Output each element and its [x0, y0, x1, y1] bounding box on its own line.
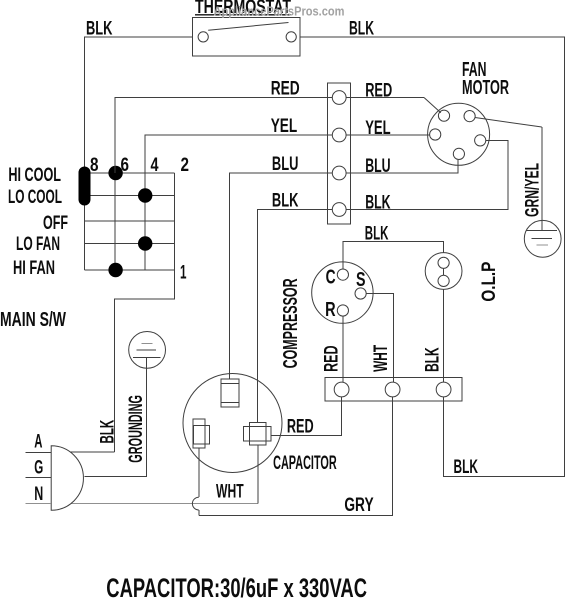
- grounding symbol left: [129, 332, 166, 369]
- fan motor M: [428, 103, 490, 165]
- overload protector O.L.P: [425, 253, 462, 290]
- svg-text:G: G: [34, 458, 43, 479]
- wire BLK thermostat right / right border loop: [300, 37, 565, 477]
- power plug: [51, 446, 83, 511]
- svg-text:BLK: BLK: [97, 420, 118, 444]
- svg-text:RED: RED: [271, 79, 300, 100]
- wire capacitor left terminal with hop: [198, 448, 200, 497]
- svg-text:GROUNDING: GROUNDING: [126, 395, 147, 463]
- svg-text:RED: RED: [322, 345, 343, 372]
- svg-text:4: 4: [151, 155, 159, 176]
- svg-text:BLK: BLK: [86, 19, 113, 40]
- svg-text:AppliancePartsPros.com: AppliancePartsPros.com: [214, 4, 345, 19]
- plug stub N: [25, 503, 51, 505]
- terminal strip TB: [325, 377, 462, 401]
- wire RED compressor R to terminal strip: [342, 316, 344, 382]
- svg-text:BLU: BLU: [365, 156, 390, 177]
- wire GRY terminal strip to capacitor left: [199, 397, 393, 516]
- wire WHT plug N to capacitor right: [51, 503, 258, 505]
- contact dot col6 HI COOL: [108, 166, 122, 180]
- wire BLK selector 1 to plug: [114, 270, 174, 452]
- svg-text:6: 6: [121, 155, 130, 176]
- svg-text:OFF: OFF: [43, 213, 68, 234]
- connector strip CN: [327, 83, 350, 224]
- svg-text:LO COOL: LO COOL: [8, 187, 62, 208]
- wire WHT compressor S to terminal strip: [366, 294, 393, 383]
- plug stub G: [25, 477, 51, 479]
- svg-text:WHT: WHT: [216, 481, 244, 502]
- wire YEL selector to connector: [145, 135, 332, 173]
- svg-text:GRY: GRY: [344, 495, 373, 516]
- svg-text:R: R: [325, 299, 336, 321]
- svg-text:BLK: BLK: [272, 191, 299, 212]
- svg-text:BLK: BLK: [454, 457, 479, 478]
- wire YEL connector to fan motor: [346, 134, 430, 136]
- capacitor C1: [183, 374, 282, 473]
- wire BLU connector to fan motor: [346, 160, 458, 173]
- svg-text:YEL: YEL: [271, 116, 298, 137]
- svg-text:BLK: BLK: [423, 347, 444, 372]
- wire BLU capacitor riser to connector: [230, 173, 333, 379]
- svg-text:CAPACITOR: CAPACITOR: [273, 453, 337, 474]
- svg-text:BLK: BLK: [365, 224, 389, 245]
- svg-text:MAIN S/W: MAIN S/W: [0, 309, 66, 331]
- wire BLK connector to fan motor right pin: [346, 140, 508, 209]
- wire BLK compressor C to OLP: [343, 241, 444, 269]
- svg-text:RED: RED: [287, 417, 314, 438]
- svg-text:BLK: BLK: [349, 19, 374, 40]
- svg-text:MOTOR: MOTOR: [462, 77, 509, 99]
- wire RED selector to connector: [115, 98, 332, 174]
- svg-text:HI COOL: HI COOL: [8, 165, 61, 186]
- svg-text:CAPACITOR:30/6uF x 330VAC: CAPACITOR:30/6uF x 330VAC: [106, 573, 367, 600]
- thermostat TH: [193, 0, 301, 56]
- selector switch grid MAIN S/W: [85, 98, 175, 271]
- svg-text:1: 1: [180, 263, 187, 284]
- earth ground symbol right: [524, 220, 561, 257]
- svg-text:HI FAN: HI FAN: [13, 258, 55, 279]
- wire BLK thermostat to selector col 8: [85, 37, 193, 270]
- svg-text:A: A: [34, 431, 42, 452]
- contact dot col6 HI FAN: [108, 263, 122, 277]
- wire OLP to terminal strip BLK: [443, 289, 445, 382]
- svg-text:N: N: [34, 484, 43, 505]
- svg-text:RED: RED: [365, 81, 392, 102]
- svg-text:C: C: [326, 266, 336, 288]
- svg-text:WHT: WHT: [371, 345, 392, 372]
- wire RED terminal strip to capacitor: [271, 397, 342, 436]
- svg-text:BLK: BLK: [365, 193, 391, 214]
- wire RED connector to fan motor: [346, 97, 424, 99]
- svg-text:YEL: YEL: [365, 118, 391, 139]
- svg-text:O.L.P: O.L.P: [479, 261, 500, 301]
- contact dot col4 LO COOL: [138, 188, 152, 202]
- svg-text:GRN/YEL: GRN/YEL: [523, 163, 544, 217]
- compressor COMP: [312, 262, 373, 323]
- svg-text:S: S: [356, 269, 366, 291]
- svg-text:2: 2: [181, 155, 190, 176]
- wire GRN/YEL fan motor to earth: [475, 118, 542, 128]
- svg-text:COMPRESSOR: COMPRESSOR: [280, 278, 302, 368]
- svg-text:8: 8: [90, 155, 99, 176]
- wire grounding to plug: [85, 357, 147, 476]
- plug stub A: [25, 452, 51, 454]
- wire capacitor right terminal down: [257, 445, 259, 504]
- wire BLK capacitor riser to connector: [258, 210, 333, 423]
- svg-text:BLU: BLU: [272, 154, 299, 175]
- svg-text:LO FAN: LO FAN: [16, 234, 60, 255]
- contact dot col4 LO FAN: [138, 236, 152, 250]
- selector contact pill col 8: [79, 167, 91, 206]
